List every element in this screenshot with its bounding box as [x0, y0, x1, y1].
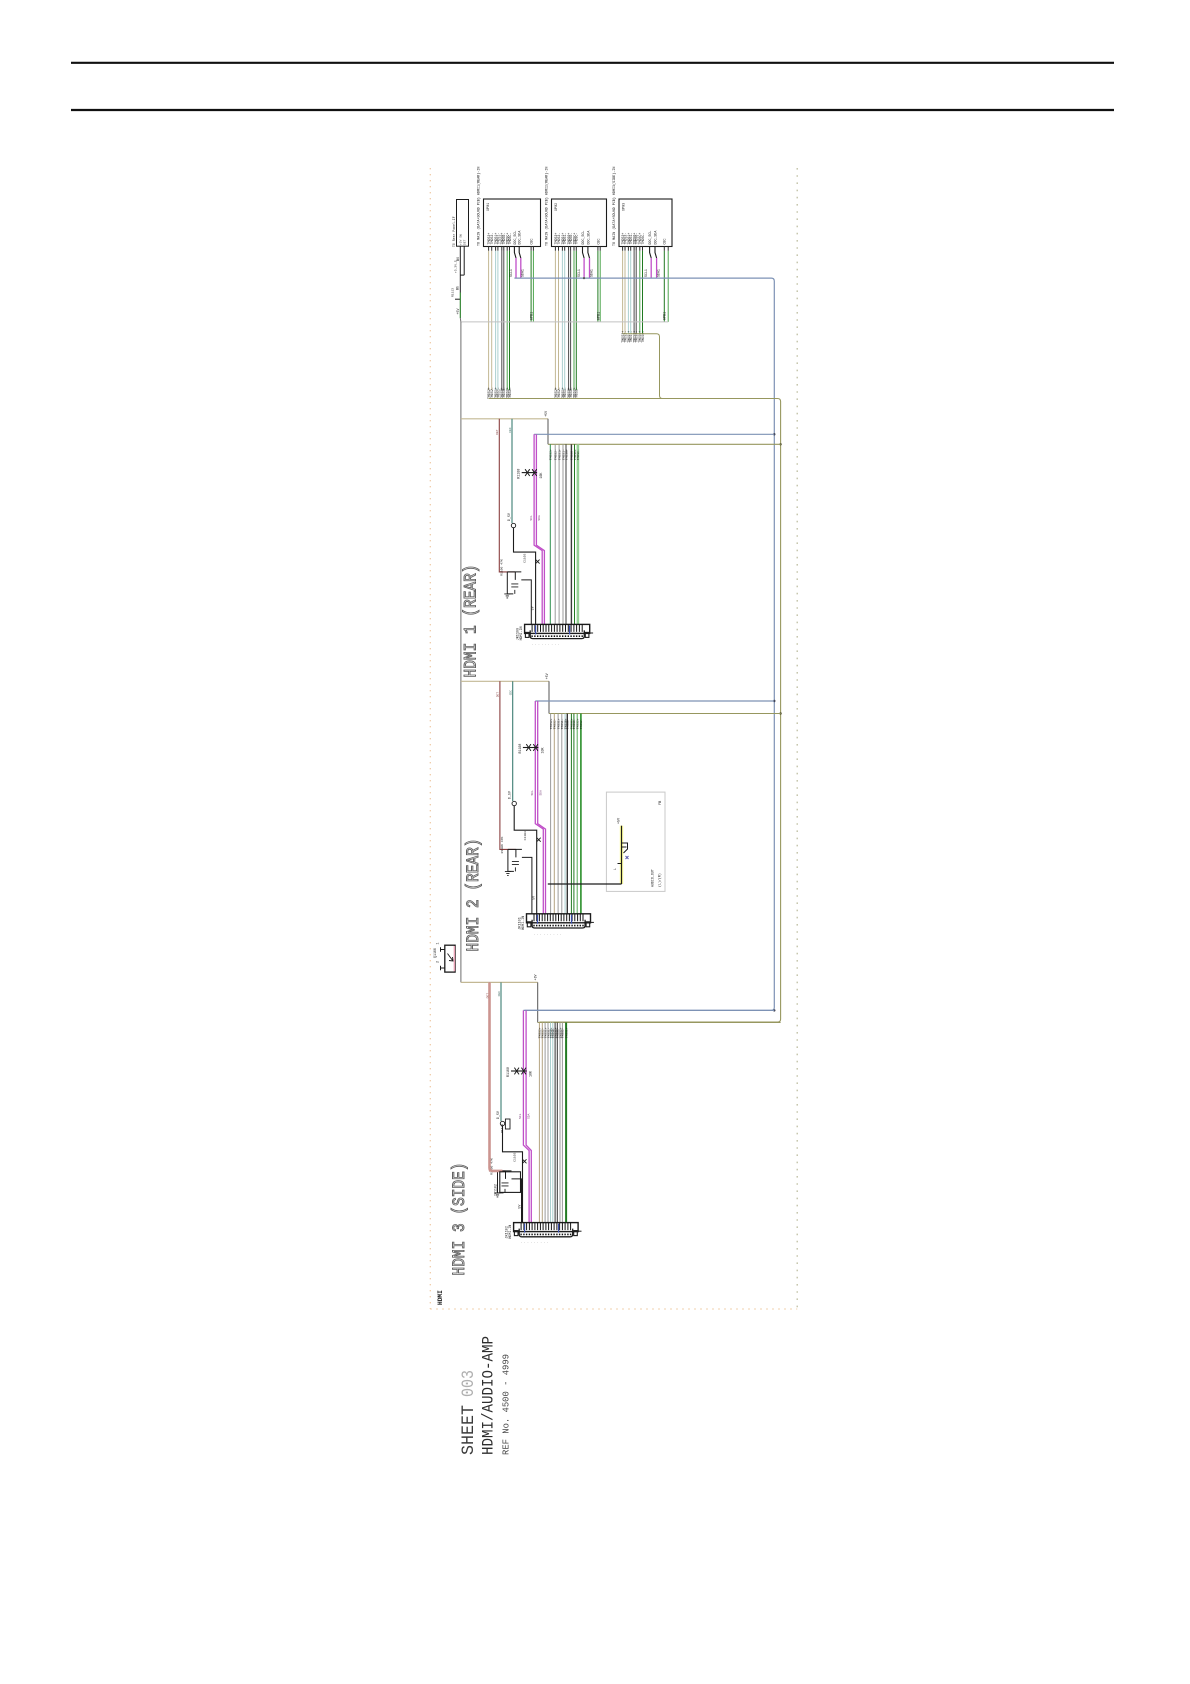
wire XP01 HPD (green)	[532, 246, 534, 251]
wire +5V feed HDMI3 (tan horizontal)	[461, 981, 538, 983]
svg-text:CEC: CEC	[530, 239, 534, 245]
svg-text:XP03: XP03	[623, 203, 627, 211]
svg-text:TMDSC-: TMDSC-	[641, 331, 645, 343]
junction olive HDMI1	[779, 443, 781, 445]
wire P1 pin2 down	[463, 246, 465, 275]
audio wire vertical	[621, 826, 623, 884]
svg-text:R1106 47K: R1106 47K	[500, 837, 504, 854]
svg-text:D_5V: D_5V	[508, 791, 512, 799]
resistor network R208 (cross)	[523, 747, 539, 749]
hdmi jack JK1100 body	[525, 624, 590, 633]
svg-text:L: L	[613, 868, 617, 870]
pin stub XP01 TMDS1-	[497, 246, 499, 251]
pin stub XP02 TMDS1+	[561, 246, 563, 251]
transistor Q1100 body	[445, 945, 455, 972]
svg-text:DDC_SCL: DDC_SCL	[581, 231, 585, 245]
hdmi jack JK1101 shield stub	[591, 921, 594, 923]
wire XP02 HPD (green)	[599, 246, 601, 251]
svg-text:TMDS2+: TMDS2+	[549, 449, 553, 460]
transistor Q1100 pin top	[441, 947, 445, 951]
cap mark audio	[626, 856, 629, 859]
wire XP03 TMDS TMDSC+	[639, 251, 641, 334]
wire tmds0 HDMI1	[549, 444, 551, 624]
wire tmds2 HDMI1	[558, 444, 560, 624]
svg-text:TMDSC-: TMDSC-	[575, 387, 579, 399]
wire cec HDMI3 (teal)	[500, 982, 502, 1121]
svg-text:SDA: SDA	[528, 1113, 531, 1119]
transistor Q1100 arrow	[448, 954, 454, 962]
ferrite bead FB1100	[622, 843, 628, 853]
wire +5V drop HDMI1	[547, 419, 549, 445]
wire XP01 TMDS TMDS2+	[488, 251, 490, 390]
svg-text:DDC_SDA: DDC_SDA	[654, 231, 658, 245]
svg-text:+5V: +5V	[456, 309, 460, 315]
wire tmds5 HDMI1	[570, 444, 572, 624]
bus tmds HDMI3 (olive horizontal)	[538, 1022, 781, 1024]
wire tmds8 HDMI2	[576, 714, 578, 914]
svg-text:(L)/(R): (L)/(R)	[657, 873, 661, 887]
junction blue HDMI1	[773, 433, 775, 435]
sheet dotted border bottom	[430, 1308, 797, 1310]
pin stub XP02 TMDS2-	[558, 246, 560, 251]
hdmi jack JK1100 lower shell	[530, 630, 584, 638]
svg-text:SDA1: SDA1	[521, 269, 525, 277]
svg-text:R1106 47K: R1106 47K	[499, 559, 503, 576]
svg-text:R1108: R1108	[517, 469, 521, 479]
wire tmds4 HDMI1	[565, 444, 567, 624]
connector P1 (small) outline	[457, 200, 469, 247]
wire tmds4 HDMI3	[550, 1023, 552, 1223]
wire tmds0 HDMI2	[550, 714, 552, 914]
wire XP02 DDC SCL pin stub	[583, 247, 585, 259]
resistor network R108 (cross)	[522, 472, 537, 474]
resistor cluster HDMI2 wiring	[508, 849, 532, 913]
svg-text:C1103: C1103	[522, 553, 526, 562]
svg-text:C1103: C1103	[513, 1152, 517, 1161]
rail upper joint	[459, 318, 462, 322]
svg-text:CEC: CEC	[510, 690, 513, 696]
diode D31 mark	[523, 1159, 527, 1163]
wire tmds5 HDMI3	[552, 1023, 554, 1223]
capacitor C11	[511, 584, 518, 594]
hdmi jack JK1101 lower shell	[532, 920, 585, 928]
wire XP02 DDC SCL (purple)	[583, 258, 585, 278]
svg-text:SCL: SCL	[519, 1113, 522, 1119]
svg-text:+5V: +5V	[617, 817, 621, 824]
junction olive HDMI2	[779, 712, 781, 714]
connector XP03 outline	[619, 199, 672, 247]
diode D11 mark	[536, 560, 540, 564]
wire XP03 TMDS TMDS2+	[622, 251, 624, 334]
connector XP01 outline	[484, 199, 541, 247]
wire XP02 TMDS TMDS0-	[570, 251, 572, 390]
svg-text:.........: .........	[521, 1241, 551, 1244]
ground sym HDMI3 a	[495, 1193, 501, 1197]
wire XP03 DDC SCL (purple)	[650, 258, 652, 278]
component box HDMI3 cluster	[500, 1172, 521, 1193]
svg-text:HDMI-IN: HDMI-IN	[519, 627, 523, 641]
hdmi jack JK1102 body	[514, 1223, 579, 1232]
svg-text:SCL1: SCL1	[644, 269, 648, 277]
wire tmds4 HDMI2	[564, 714, 566, 914]
svg-text:SDA1: SDA1	[656, 269, 660, 277]
wire tmds7 HDMI3	[556, 1023, 558, 1223]
svg-text:XP01: XP01	[487, 203, 491, 211]
hdmi jack JK1102 shield stub	[578, 1230, 581, 1232]
hdmi jack JK1102 left tab	[514, 1231, 518, 1236]
bus ddc HDMI2 (blue horizontal)	[535, 700, 774, 702]
bus ddc HDMI3 (blue horizontal)	[523, 1009, 774, 1011]
svg-text:5V: 5V	[518, 1205, 522, 1209]
svg-text:DET: DET	[496, 429, 499, 435]
left +5V rail (gray vertical)	[460, 322, 462, 983]
svg-text:SHEET: SHEET	[459, 1405, 479, 1455]
wire XP01 CEC (green)	[530, 246, 532, 251]
pullup Q HDMI2	[512, 801, 516, 805]
page top rule 2	[71, 109, 1114, 111]
hdmi jack JK1100 right tab	[585, 632, 589, 637]
hdmi jack JK1101 left tab	[527, 922, 531, 927]
pin stub XP03 TMDSC-	[642, 246, 644, 251]
wire detect HDMI3 (dark red)	[490, 982, 506, 1171]
svg-text:HDMI 3 (SIDE): HDMI 3 (SIDE)	[450, 1163, 470, 1276]
pin stub XP01 TMDS0-	[503, 246, 505, 251]
hdmi jack JK1102 pin dots	[521, 1234, 571, 1236]
svg-text:XP02: XP02	[555, 203, 559, 211]
pin stub XP03 TMDSC+	[639, 246, 641, 251]
ground sym HDMI2 a	[505, 871, 511, 875]
svg-text:TO MAIN (DATA+SOUND PCB) HDMI1: TO MAIN (DATA+SOUND PCB) HDMI1(REAR)-IN	[477, 167, 482, 246]
svg-text:HPD1: HPD1	[531, 312, 535, 320]
bus tmds HDMI1 (olive horizontal)	[548, 443, 781, 445]
wire +5V power HDMI3 (salmon thick)	[490, 982, 503, 1171]
pin stub XP02 TMDSC+	[573, 246, 575, 251]
svg-text:+5V: +5V	[544, 411, 548, 417]
wire XP01 TMDS TMDSC-	[509, 251, 511, 390]
junction blue bus right corner	[773, 1009, 775, 1011]
pin stub XP01 TMDS0+	[501, 246, 503, 251]
wire XP01 DDC SCL (purple)	[515, 258, 517, 278]
svg-text:HDMI-IN: HDMI-IN	[521, 916, 525, 930]
svg-text:TMDSC-: TMDSC-	[575, 233, 579, 245]
wire tmds3 HDMI3	[547, 1023, 549, 1223]
wire tmds1 HDMI1	[554, 444, 556, 624]
pin stub XP02 TMDSC-	[575, 246, 577, 251]
pin stub XP03 TMDS0-	[635, 246, 637, 251]
svg-text:.........: .........	[532, 643, 562, 646]
wire tmds2 HDMI2	[557, 714, 559, 914]
wire tmds5 HDMI2	[566, 714, 568, 914]
svg-text:TMDSC-: TMDSC-	[508, 233, 512, 245]
svg-text:B5: B5	[456, 286, 460, 290]
wire XP02 DDC SDA (purple)	[589, 258, 591, 278]
wire XP02 TMDS TMDS1-	[564, 251, 566, 390]
svg-text:IC1102: IC1102	[494, 1184, 498, 1196]
wire +5V feed HDMI1 (tan horizontal)	[461, 418, 548, 420]
pin stub XP03 TMDS1-	[630, 246, 632, 251]
wire tmds6 HDMI2	[570, 714, 572, 914]
svg-text:SCL: SCL	[531, 790, 534, 796]
hdmi jack JK1100 pins	[532, 624, 582, 632]
wire XP01 TMDS TMDS0-	[503, 251, 505, 390]
svg-text:TO Rear Panel-IF: TO Rear Panel-IF	[452, 216, 456, 247]
svg-text:SCL1: SCL1	[577, 269, 581, 277]
svg-text:TMDSC-: TMDSC-	[576, 449, 580, 460]
bus ddc HDMI1 (blue horizontal)	[534, 433, 774, 435]
svg-text:HPD1: HPD1	[597, 312, 601, 320]
wire tmds9 HDMI3	[561, 1023, 563, 1223]
wire tmds1 HDMI3	[541, 1023, 543, 1223]
pin stub XP02 TMDS2+	[554, 246, 556, 251]
pin stub XP02 TMDS0+	[568, 246, 570, 251]
svg-text:TMDSC-: TMDSC-	[508, 387, 512, 399]
wire ddc scl HDMI1 (purple)	[534, 434, 542, 624]
bus TMDS collect (olive) horizontal	[489, 399, 781, 1023]
svg-text:AUDIO_OUT: AUDIO_OUT	[650, 869, 654, 887]
svg-text:R1108: R1108	[506, 1067, 510, 1077]
wire XP01 TMDS TMDS0+	[501, 251, 503, 390]
svg-text:HDMI 1 (REAR): HDMI 1 (REAR)	[462, 565, 482, 678]
resistor cluster HDMI3 wiring	[498, 1171, 522, 1223]
svg-text:003: 003	[459, 1370, 479, 1397]
svg-text:C1103: C1103	[523, 831, 527, 840]
ground sym HDMI1 a	[504, 594, 510, 598]
hdmi jack JK1102 pins	[521, 1223, 571, 1231]
resistor tick R1113	[455, 298, 460, 300]
hdmi jack JK1100 left tab	[525, 632, 529, 637]
pin stub XP01 TMDS1+	[495, 246, 497, 251]
svg-text:DDC_SCL: DDC_SCL	[648, 231, 652, 245]
svg-text:2: 2	[436, 961, 440, 963]
wire +5V drop HDMI2	[548, 681, 550, 713]
wire detect HDMI1 (dark red)	[499, 419, 515, 572]
wire XP03 DDC SCL pin stub	[650, 247, 652, 259]
wire tmds9 HDMI2	[580, 714, 582, 914]
hdmi jack JK1102 blue pins	[525, 1224, 559, 1233]
svg-text:+5V: +5V	[545, 673, 549, 679]
svg-text:Q1100: Q1100	[433, 948, 437, 958]
svg-text:+3.3V_S: +3.3V_S	[455, 260, 458, 273]
wire ddc sda HDMI3 (purple)	[526, 1010, 531, 1222]
wire XP02 TMDS TMDSC-	[575, 251, 577, 390]
pullup Q HDMI3	[500, 1121, 504, 1125]
pin stub XP03 TMDS2+	[622, 246, 624, 251]
resistor R1131 HDMI3	[505, 1119, 510, 1129]
wire XP03 TMDS TMDS1-	[630, 251, 632, 334]
svg-text:R1108: R1108	[518, 744, 522, 754]
svg-text:HPD1: HPD1	[664, 312, 668, 320]
wire cec link HDMI3 (black path)	[503, 1126, 523, 1223]
svg-text:SCL: SCL	[530, 515, 533, 521]
svg-text:REF No. 4500 - 4999: REF No. 4500 - 4999	[502, 1354, 512, 1455]
wire XP02 TMDS TMDS0+	[568, 251, 570, 390]
wire XP01 DDC SDA (purple)	[520, 258, 522, 278]
svg-text:TO MAIN (DATA+SOUND PCB) HDMI2: TO MAIN (DATA+SOUND PCB) HDMI2(REAR)-IN	[545, 167, 550, 246]
wire ddc sda HDMI2 (purple)	[538, 701, 546, 914]
pin stub XP03 TMDS0+	[633, 246, 635, 251]
page top rule 1	[71, 62, 1114, 64]
wire XP02 TMDS TMDS2+	[554, 251, 556, 390]
transistor Q1100 pin bottom	[441, 966, 445, 970]
svg-text:DET: DET	[464, 239, 467, 245]
svg-text:SDA: SDA	[538, 515, 541, 521]
wire tmds0 HDMI3	[538, 1023, 540, 1223]
svg-text:10K: 10K	[529, 1071, 533, 1077]
svg-text:TMDS0+: TMDS0+	[564, 449, 568, 460]
wire cec link HDMI2 (black path)	[514, 806, 537, 914]
wire XP03 TMDS TMDS0+	[633, 251, 635, 334]
svg-text:DDC_SDA: DDC_SDA	[586, 231, 590, 245]
wire XP01 TMDS TMDS1+	[495, 251, 497, 390]
junction blue HDMI2	[773, 700, 775, 702]
transistor Q1100 pink edge	[453, 946, 455, 971]
pin stub XP01 TMDS2-	[491, 246, 493, 251]
svg-text:10K: 10K	[539, 473, 543, 479]
wire XP03 DDC SDA (purple)	[656, 258, 658, 278]
hdmi jack JK1102 lower shell	[519, 1229, 572, 1237]
wire XP02 CEC (green)	[597, 246, 599, 251]
svg-text:CEC: CEC	[498, 991, 501, 997]
wire tmds2 HDMI3	[544, 1023, 546, 1223]
svg-text:5V: 5V	[531, 606, 535, 610]
hdmi jack JK1101 right tab	[586, 922, 590, 927]
svg-text:HDMI-IN: HDMI-IN	[508, 1225, 512, 1239]
wire XP03 HPD (green)	[667, 246, 669, 251]
svg-text:10K: 10K	[540, 748, 544, 754]
capacitor C21	[512, 861, 519, 871]
svg-text:+5V SW: +5V SW	[460, 234, 463, 245]
hdmi jack JK1101 pins	[534, 914, 583, 922]
sheet dotted border left	[429, 168, 431, 1309]
hdmi jack JK1101 body	[527, 914, 591, 923]
svg-text:R1113: R1113	[451, 288, 454, 297]
pin stub XP01 TMDSC+	[506, 246, 508, 251]
svg-text:D_5V: D_5V	[507, 513, 511, 521]
svg-text:5V: 5V	[532, 896, 536, 900]
wire detect HDMI2 (dark red)	[500, 681, 516, 849]
svg-text:HDMI 2 (REAR): HDMI 2 (REAR)	[464, 839, 484, 952]
wire XP02 TMDS TMDS1+	[561, 251, 563, 390]
wire tmds1 HDMI2	[553, 714, 555, 914]
svg-text:TO MAIN (DATA+SOUND PCB) HDMI3: TO MAIN (DATA+SOUND PCB) HDMI3(SIDE)-IN	[612, 167, 617, 246]
wire tmds7 HDMI2	[573, 714, 575, 914]
wire tmds3 HDMI1	[562, 444, 564, 624]
wire tmds6 HDMI1	[574, 444, 576, 624]
resistor network R308 (cross)	[511, 1070, 527, 1072]
hdmi jack JK1102 right tab	[574, 1231, 578, 1236]
wire XP03 TMDS TMDS1+	[627, 251, 629, 334]
svg-text:TMDS2-: TMDS2-	[579, 718, 583, 729]
wire XP01 DDC SDA pin stub	[519, 247, 521, 259]
wire XP01 TMDS TMDS1-	[497, 251, 499, 390]
bus XP03 collect (olive)	[623, 334, 663, 399]
wire ddc sda HDMI1 (purple)	[536, 434, 544, 624]
tick audio	[618, 863, 622, 865]
wire tmds7 HDMI1	[577, 444, 580, 624]
pin stub XP01 TMDSC-	[509, 246, 511, 251]
hdmi jack JK1101 pin dots	[534, 925, 583, 927]
svg-text:HDMI: HDMI	[437, 1290, 444, 1305]
wire XP03 DDC SDA pin stub	[655, 247, 657, 259]
wire XP01 TMDS TMDS2-	[491, 251, 493, 390]
bus tmds HDMI2 (olive horizontal)	[549, 713, 781, 715]
connector XP02 outline	[552, 199, 607, 247]
pin stub XP03 TMDS2-	[624, 246, 626, 251]
audio wire (yellow highlight)	[620, 826, 623, 884]
wire tmds10 HDMI3	[565, 1023, 567, 1223]
diode D21 mark	[537, 838, 541, 842]
pin stub XP02 TMDS0-	[570, 246, 572, 251]
svg-text:TMDS1+: TMDS1+	[564, 1027, 568, 1038]
svg-text:HDMI/AUDIO-AMP: HDMI/AUDIO-AMP	[480, 1336, 498, 1455]
svg-text:+5V: +5V	[534, 974, 538, 980]
bus DDC (blue) horizontal top	[514, 278, 774, 1010]
svg-text:R1131: R1131	[500, 1124, 504, 1133]
svg-text:SDA1: SDA1	[589, 269, 593, 277]
bus +5V detect (light gray) horizontal	[461, 321, 668, 323]
svg-text:SDA: SDA	[539, 790, 542, 796]
svg-text:DET: DET	[497, 692, 500, 698]
wire cec HDMI2 (teal)	[512, 681, 514, 801]
audio subcircuit box	[606, 792, 665, 891]
svg-text:CEC: CEC	[509, 427, 512, 433]
svg-text:DDC_SCL: DDC_SCL	[513, 231, 517, 245]
svg-text:FB: FB	[659, 801, 663, 805]
junction blue bus at XP02	[583, 277, 585, 279]
pin stub XP01 TMDS2+	[488, 246, 490, 251]
wire P1 bridge	[460, 274, 464, 276]
hdmi jack JK1100 shield stub	[590, 632, 593, 634]
resistor cluster HDMI1 wiring	[507, 572, 531, 625]
wire XP01 DDC SCL pin stub	[514, 247, 516, 259]
wire XP03 TMDS TMDS2-	[624, 251, 626, 334]
hdmi jack JK1100 blue pins	[536, 625, 570, 634]
wire XP03 TMDS TMDSC-	[642, 251, 644, 334]
hdmi jack JK1101 blue pins	[538, 915, 572, 924]
svg-text:.........: .........	[534, 932, 564, 935]
wire XP02 DDC SDA pin stub	[588, 247, 590, 259]
hdmi jack JK1100 pin dots	[532, 635, 582, 637]
svg-text:SCL1: SCL1	[509, 269, 513, 277]
pin stub XP02 TMDS1-	[564, 246, 566, 251]
sheet dotted border right	[796, 168, 798, 1309]
svg-text:D_5V: D_5V	[496, 1111, 500, 1119]
pin stub XP03 TMDS1+	[627, 246, 629, 251]
wire ddc scl HDMI2 (purple)	[535, 701, 543, 914]
wire XP03 CEC (green)	[663, 246, 665, 251]
wire XP03 TMDS TMDS0-	[635, 251, 637, 334]
wire P1 pin1 down	[459, 246, 461, 292]
wire XP02 TMDS TMDSC+	[573, 251, 575, 390]
audio wire horizontal to bundle	[548, 883, 622, 885]
wire P1 to +5V rail (green)	[459, 293, 461, 319]
wire cec HDMI1 (teal)	[511, 419, 513, 523]
wire +5V drop HDMI3	[537, 982, 539, 1022]
wire XP01 TMDS TMDSC+	[506, 251, 508, 390]
wire +5V feed HDMI2 (tan horizontal)	[461, 680, 549, 682]
svg-text:CEC: CEC	[663, 239, 667, 245]
svg-text:TMDSC-: TMDSC-	[641, 233, 645, 245]
wire cec link HDMI1 (black path)	[514, 528, 536, 624]
wire ddc scl HDMI3 (purple)	[523, 1010, 529, 1222]
wire tmds3 HDMI2	[561, 714, 563, 914]
svg-text:1: 1	[436, 943, 440, 945]
pullup Q HDMI1	[511, 523, 515, 527]
svg-text:DDC_SDA: DDC_SDA	[518, 231, 522, 245]
capacitor C31	[502, 1183, 509, 1193]
svg-text:CEC: CEC	[596, 239, 600, 245]
wire tmds8 HDMI3	[559, 1023, 561, 1223]
